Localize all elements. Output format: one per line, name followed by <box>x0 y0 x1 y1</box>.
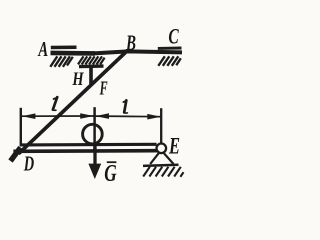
macron over G <box>107 161 117 163</box>
svg-text:G: G <box>104 161 117 187</box>
dimension line left span <box>22 115 94 117</box>
svg-text:B: B <box>125 30 136 55</box>
svg-text:A: A <box>37 37 48 61</box>
right arrowhead of left span <box>80 113 94 119</box>
support ledge at C <box>158 47 182 50</box>
svg-text:C: C <box>168 23 179 48</box>
roller triangle at E <box>150 152 173 164</box>
support ledge at A <box>51 45 77 49</box>
hatching at H support <box>78 56 105 64</box>
hatching at C support <box>158 56 181 66</box>
weight arrow shaft <box>93 144 96 165</box>
rod HF <box>89 68 93 86</box>
support bar at H <box>79 64 104 68</box>
pulley circle <box>83 124 103 144</box>
svg-text:E: E <box>168 134 180 159</box>
ground line at E <box>143 165 179 166</box>
dimension arrowheads <box>22 113 161 179</box>
lower beam DE top line <box>21 143 157 147</box>
center extension / rope line <box>93 107 96 150</box>
ground hatching at E <box>143 167 183 177</box>
weight arrowhead G <box>88 164 101 179</box>
svg-text:F: F <box>99 78 108 100</box>
left arrowhead of left span <box>22 113 36 119</box>
right arrowhead of right span <box>147 114 161 120</box>
label l (left span) <box>53 97 58 110</box>
svg-text:H: H <box>72 69 85 90</box>
rope through pulley <box>93 124 96 150</box>
svg-text:D: D <box>23 152 34 176</box>
right extension line <box>160 108 162 143</box>
hatching at A support <box>50 56 73 67</box>
left extension line <box>20 108 22 147</box>
label l (right span) <box>123 100 127 113</box>
left arrowhead of right span <box>95 113 109 119</box>
lower beam DE bottom line <box>13 149 156 153</box>
dimension line right span <box>95 115 161 118</box>
beam ABC (top horizontal bar) <box>51 51 96 56</box>
roller circle at E <box>157 144 167 154</box>
diagonal bar B-D <box>19 50 128 154</box>
diagonal tail past D <box>11 148 21 162</box>
